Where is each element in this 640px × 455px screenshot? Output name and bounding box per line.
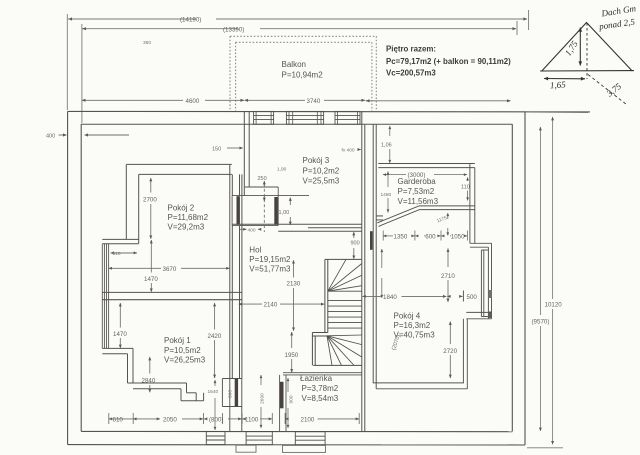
node label 1470 <box>144 276 158 283</box>
door box pokoj2/pokoj3 <box>232 187 278 226</box>
svg-text:110: 110 <box>461 185 470 191</box>
node label 1640 <box>208 389 219 395</box>
lazienka north wall <box>283 373 362 375</box>
svg-text:1840: 1840 <box>383 294 397 301</box>
dim 1640 <box>214 380 216 430</box>
node label (14190) <box>180 17 201 24</box>
svg-text:900: 900 <box>228 390 234 398</box>
window W3 mullions <box>338 111 358 124</box>
node label 4600 <box>186 98 200 105</box>
right dim 10120 <box>552 117 554 444</box>
window W3 north wall <box>335 111 360 124</box>
svg-text:(13390): (13390) <box>223 27 244 34</box>
svg-text:3670: 3670 <box>163 266 177 273</box>
pokoj1 south-west step walls <box>128 383 204 401</box>
garderoba label <box>398 177 439 206</box>
window frame dark bits <box>488 290 492 318</box>
svg-text:P=11,68m2: P=11,68m2 <box>168 213 209 222</box>
dim unlabeled x382 <box>381 249 383 298</box>
svg-text:900: 900 <box>289 395 295 403</box>
dim 110 <box>467 177 469 200</box>
window S1 south wall <box>206 432 225 445</box>
dim 3740 balcony <box>245 99 511 102</box>
window W2 mullions <box>289 111 321 124</box>
node label 2710 <box>441 273 455 280</box>
pokoj4 south wall <box>373 383 467 389</box>
svg-text:1,00: 1,00 <box>279 210 290 216</box>
hol label <box>249 246 291 274</box>
svg-text:360: 360 <box>143 40 151 46</box>
pokoj3 niche top <box>245 186 278 188</box>
svg-text:1050: 1050 <box>451 233 465 240</box>
roof dashed slope 3,75 <box>588 75 627 105</box>
roof height arrow 1,75 <box>579 28 581 66</box>
svg-text:P=10,5m2: P=10,5m2 <box>164 346 201 355</box>
svg-text:Pokój 1: Pokój 1 <box>164 336 191 345</box>
svg-text:(14190): (14190) <box>180 17 201 24</box>
svg-text:2720: 2720 <box>443 348 457 355</box>
svg-text:P=10,2m2: P=10,2m2 <box>303 166 340 175</box>
right dim (9570) <box>539 127 541 431</box>
node label 250 <box>258 176 267 182</box>
svg-text:2840: 2840 <box>142 377 156 384</box>
svg-text:150: 150 <box>212 146 221 152</box>
svg-text:2700: 2700 <box>143 197 157 204</box>
lazienka west wall <box>280 375 286 432</box>
pokoj2 north wall <box>126 164 232 243</box>
node label 500 <box>467 294 478 301</box>
node label fv 400 <box>342 148 355 154</box>
svg-text:P=3,78m2: P=3,78m2 <box>302 384 339 393</box>
svg-text:2690: 2690 <box>260 393 266 404</box>
node label 3670 <box>163 266 177 273</box>
svg-text:1480: 1480 <box>381 192 392 198</box>
door axis dashed 250 <box>263 184 265 233</box>
bottom dim chain 610/2050/(800)/1100/2100 <box>109 413 359 424</box>
svg-text:Pokój 2: Pokój 2 <box>168 204 195 213</box>
balcony dotted outline <box>230 36 377 111</box>
svg-text:P=10,94m2: P=10,94m2 <box>282 71 324 80</box>
dim 400 west wall thickness <box>59 134 130 136</box>
svg-text:P=7,53m2: P=7,53m2 <box>398 187 435 196</box>
roof base arrow 1,65 <box>544 78 585 80</box>
node label 1,00 <box>279 210 290 216</box>
svg-text:1100: 1100 <box>245 416 259 423</box>
node label 1,06 <box>381 143 392 149</box>
node label 1840 <box>383 294 397 301</box>
svg-text:1950: 1950 <box>285 352 299 359</box>
dim 4600 top wall <box>82 99 244 101</box>
hol door dark bar east wall <box>370 231 373 250</box>
node label 1,65 <box>550 79 567 90</box>
svg-text:2420: 2420 <box>208 333 222 340</box>
dim (3000 garderoba <box>383 174 467 176</box>
node label 150 <box>212 146 221 152</box>
dim 1840 <box>363 295 447 297</box>
handwriting dach note <box>597 3 637 32</box>
pokoj1 label <box>164 336 206 365</box>
node label 400 <box>46 134 55 140</box>
node label 110 <box>461 185 470 191</box>
stairwell outline <box>312 259 361 365</box>
window W2 north wall <box>286 111 323 124</box>
door jamb dark bar left <box>237 196 240 225</box>
svg-text:V=25,5m3: V=25,5m3 <box>303 177 340 186</box>
svg-text:610: 610 <box>113 251 121 257</box>
svg-text:Hol: Hol <box>249 246 261 255</box>
dim 1,06 garderoba <box>389 126 391 163</box>
dim 2420 pokoj1 <box>214 303 216 378</box>
dim chain 1350/600/1050 <box>383 231 467 241</box>
node label 3,75 rotated <box>604 81 624 100</box>
dim 900 stairs top <box>353 232 355 259</box>
svg-text:Vc=200,57m3: Vc=200,57m3 <box>386 69 436 78</box>
dim fv400 arrow <box>358 149 361 151</box>
node label 2140 <box>264 302 278 309</box>
dim 2690 vestibule <box>260 375 262 428</box>
svg-text:500: 500 <box>467 294 478 301</box>
svg-text:2050: 2050 <box>163 416 177 423</box>
node labels bottom dims <box>113 416 315 423</box>
north wall inner line <box>81 123 512 125</box>
svg-text:V=11,56m3: V=11,56m3 <box>398 197 439 206</box>
pokoj2 east wall / hol west wall <box>230 164 242 378</box>
svg-text:400: 400 <box>248 228 256 234</box>
svg-text:2130: 2130 <box>287 280 301 287</box>
node label 400 door <box>248 228 256 234</box>
east wall <box>512 112 525 445</box>
node label 1480 <box>381 192 392 198</box>
dim 2140 hol width <box>239 303 325 305</box>
svg-text:4600: 4600 <box>186 98 200 105</box>
wire overall dim (14190) top <box>67 10 528 110</box>
pokoj4 north wall step <box>470 243 492 247</box>
svg-text:2710: 2710 <box>441 273 455 280</box>
svg-text:10120: 10120 <box>545 301 563 308</box>
svg-text:1,65: 1,65 <box>550 79 567 90</box>
dim 1470 upper <box>150 240 152 292</box>
dim 1950 hol lower <box>291 332 293 372</box>
svg-text:Pc=79,17m2 (+ balkon = 90,11m2: Pc=79,17m2 (+ balkon = 90,11m2) <box>386 57 511 66</box>
balkon label <box>282 60 324 80</box>
node label (2070) rotated <box>391 334 402 351</box>
window W1 mullions <box>256 111 271 124</box>
svg-text:V=26,25m3: V=26,25m3 <box>164 356 206 365</box>
svg-text:610: 610 <box>113 416 124 423</box>
dim 250 arrows <box>263 181 265 201</box>
svg-text:1640: 1640 <box>208 389 219 395</box>
dim 1175 vertical <box>447 213 449 236</box>
pier door dark bar <box>235 379 238 407</box>
svg-text:600: 600 <box>425 233 436 240</box>
svg-text:Garderoba: Garderoba <box>398 177 437 186</box>
svg-text:P=19,15m2: P=19,15m2 <box>249 255 291 264</box>
roof dashed axis <box>586 23 588 79</box>
svg-text:Balkon: Balkon <box>282 60 306 69</box>
node label 2420 <box>208 333 222 340</box>
svg-text:Pokój 4: Pokój 4 <box>394 312 421 321</box>
pietro razem text block <box>386 45 511 78</box>
garderoba door jamb lines <box>376 215 383 217</box>
garderoba south wall <box>419 206 475 210</box>
dim 2840 <box>149 357 151 392</box>
node label 1,75 rotated <box>563 39 580 58</box>
stair lower winders <box>327 335 362 365</box>
dim 900 lazienka rotated <box>289 395 295 403</box>
wire overall dim (13390) <box>82 21 517 123</box>
pokoj4 east wall lower <box>463 291 491 390</box>
window S3 south wall <box>295 432 325 445</box>
node label 900 pier rotated <box>228 390 234 398</box>
dim 2710 pokoj4 <box>447 249 449 303</box>
dim line 900 lazienka <box>287 378 289 428</box>
window S2 south wall <box>246 432 272 445</box>
node label 1175 rotated <box>436 215 448 224</box>
divider wall pokoj2/pokoj1 <box>102 292 242 299</box>
west bay knee wall lines <box>102 244 108 349</box>
dim 1480 <box>387 172 389 213</box>
north wall outer line <box>68 110 590 113</box>
node label 2130 <box>287 280 301 287</box>
pokoj3 west wall <box>244 111 249 195</box>
svg-text:(800): (800) <box>209 416 223 423</box>
svg-text:400: 400 <box>46 134 55 140</box>
steps below south wall <box>236 445 326 452</box>
node label 900 stairs <box>351 241 360 247</box>
faint smudge near top <box>143 40 151 46</box>
node label 2700 <box>143 197 157 204</box>
dim 3670 pokoj2 width <box>109 267 230 269</box>
dim 1,00 corner pokoj3 <box>289 198 291 226</box>
svg-text:P=16,3m2: P=16,3m2 <box>394 321 431 330</box>
door jamb dark bar right <box>274 197 278 225</box>
svg-text:Pokój 3: Pokój 3 <box>303 156 330 165</box>
pokoj2 label <box>168 204 209 232</box>
node label 1470 lower <box>113 331 127 338</box>
svg-text:1470: 1470 <box>113 331 127 338</box>
dim 150 left of pokoj3 <box>227 147 243 149</box>
pokoj3 hol wall <box>232 224 362 231</box>
svg-text:3740: 3740 <box>307 98 321 105</box>
west bay bottom step <box>102 348 133 383</box>
svg-text:Piętro razem:: Piętro razem: <box>386 45 436 54</box>
pokoj4 east window band <box>481 243 491 318</box>
node label 1,90 <box>277 167 287 173</box>
west wall <box>68 111 82 444</box>
svg-text:fv 400: fv 400 <box>342 148 355 154</box>
hol pier wall column <box>222 379 241 432</box>
svg-text:V=29,2m3: V=29,2m3 <box>168 223 205 232</box>
svg-text:900: 900 <box>351 241 360 247</box>
lazienka label <box>300 374 339 403</box>
svg-text:2140: 2140 <box>264 302 278 309</box>
roof triangle <box>541 23 634 72</box>
svg-text:Łazienka: Łazienka <box>300 374 333 383</box>
svg-text:V=51,77m3: V=51,77m3 <box>249 265 291 274</box>
svg-text:V=8,54m3: V=8,54m3 <box>302 394 339 403</box>
central column east wall <box>362 111 376 431</box>
node label 3740 <box>307 98 321 105</box>
svg-text:1470: 1470 <box>144 276 158 283</box>
dim 1470 lower <box>119 303 121 348</box>
svg-text:1,90: 1,90 <box>277 167 287 173</box>
node label 1950 <box>285 352 299 359</box>
node label 610 <box>113 251 121 257</box>
lazienka door dark bar <box>280 382 284 409</box>
window W1 north wall <box>254 111 274 124</box>
garderoba diagonal wall <box>376 206 419 227</box>
pokoj3 south line <box>232 195 309 197</box>
node label 2690 rotated <box>260 393 266 404</box>
pokoj3 label <box>303 156 340 186</box>
dim 2700 pokoj2 <box>150 178 152 239</box>
south wall <box>68 431 525 445</box>
garderoba top shelf <box>378 164 475 168</box>
dim 400 door pokoj3 <box>240 228 259 230</box>
garderoba east wall <box>470 164 475 244</box>
svg-text:250: 250 <box>258 176 267 182</box>
node label 2720 <box>443 348 457 355</box>
svg-text:(9570): (9570) <box>532 319 550 326</box>
dim 2720 pokoj4 <box>449 322 451 379</box>
right dim extension top <box>527 112 588 448</box>
svg-text:2100: 2100 <box>301 416 315 423</box>
svg-text:1350: 1350 <box>394 233 408 240</box>
dim 2130 hol <box>293 260 295 331</box>
dim 610 upper bay <box>111 252 138 254</box>
stair upper winders <box>328 259 362 291</box>
west bay top step <box>102 239 138 243</box>
dim 500 <box>447 295 462 297</box>
node label 10120 <box>545 301 563 308</box>
node labels 1350 600 1050 <box>394 233 466 240</box>
stair treads <box>328 291 362 328</box>
svg-text:1,06: 1,06 <box>381 143 392 149</box>
node label (13390) <box>223 27 244 34</box>
pokoj4 label <box>394 312 436 340</box>
node label (9570) <box>532 319 550 326</box>
node label 2840 <box>142 377 156 384</box>
node label (3000) <box>408 172 426 179</box>
